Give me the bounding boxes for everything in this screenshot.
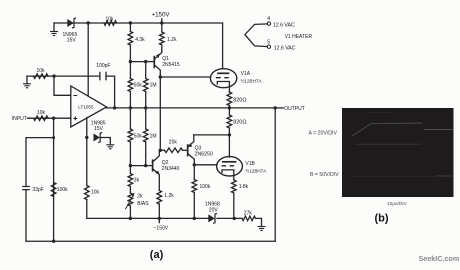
op-amp V+ supply wire bbox=[87, 23, 89, 96]
svg-text:12.6 VAC: 12.6 VAC bbox=[274, 46, 296, 52]
ground (top-left, zener 1N965) bbox=[53, 23, 55, 32]
svg-text:2N6250: 2N6250 bbox=[195, 152, 213, 158]
op-amp U1 LT1055 bbox=[71, 86, 107, 127]
svg-text:15V: 15V bbox=[67, 38, 77, 44]
node bottom rail junction bbox=[52, 240, 55, 243]
resistor 100k (V1B grid bias) bbox=[193, 165, 195, 180]
resistor 820Ω (V1B plate) bbox=[228, 108, 230, 115]
svg-text:+150V: +150V bbox=[152, 12, 171, 19]
svg-text:33pF: 33pF bbox=[32, 187, 43, 193]
wire to V1A grid bbox=[160, 76, 210, 78]
node 20k / Q2 collector bbox=[159, 149, 162, 152]
node Q1 collector / V1A grid bbox=[159, 75, 162, 78]
svg-text:1.2k: 1.2k bbox=[167, 37, 177, 43]
svg-text:15V: 15V bbox=[94, 126, 104, 132]
resistor 1.2k (Q1 emitter) bbox=[161, 23, 163, 32]
wire op-amp output row to OUTPUT node bbox=[107, 107, 276, 109]
resistor 4.3k bbox=[129, 23, 131, 32]
svg-text:100k: 100k bbox=[57, 187, 68, 193]
wire to V1B plate bbox=[228, 135, 230, 157]
svg-text:4: 4 bbox=[267, 16, 270, 22]
svg-text:½12BH7A: ½12BH7A bbox=[245, 168, 267, 174]
wire +150V top rail bbox=[54, 23, 223, 69]
svg-text:B = 50V/DIV: B = 50V/DIV bbox=[310, 172, 339, 178]
wire OUTPUT feedback down bbox=[274, 108, 276, 241]
svg-text:820Ω: 820Ω bbox=[233, 120, 246, 126]
ground (10k inverting input) bbox=[26, 76, 28, 84]
node OUTPUT bbox=[274, 106, 277, 109]
wire -150V rail bbox=[87, 217, 209, 219]
ground bars 27k bbox=[258, 227, 266, 231]
resistor 50k (lower) bbox=[129, 108, 131, 129]
resistor 1M (upper) bbox=[145, 62, 147, 79]
resistor 1.8k (V1B cathode) bbox=[232, 180, 237, 193]
wire collector column down bbox=[159, 77, 161, 150]
wire grid V1B bbox=[194, 164, 217, 166]
node 100pF feedback bbox=[113, 106, 116, 109]
wire zener to 27k bbox=[217, 217, 242, 219]
wire + input node down bbox=[53, 118, 55, 241]
resistor 10k (V- supply from -150V) bbox=[86, 138, 88, 186]
zener diode 1N968 20W bbox=[208, 214, 215, 222]
op-amp V- supply wire bbox=[86, 118, 88, 138]
ground top-left bars bbox=[50, 32, 58, 36]
svg-text:50k: 50k bbox=[134, 133, 143, 139]
svg-text:2N5415: 2N5415 bbox=[162, 62, 180, 68]
node jog to 33pF branch bbox=[52, 136, 55, 139]
svg-text:50k: 50k bbox=[134, 82, 143, 88]
svg-text:100pF: 100pF bbox=[96, 63, 110, 69]
wire Q3 emitter to V1B plate node bbox=[194, 134, 230, 136]
resistor 50k (upper) bbox=[129, 62, 131, 79]
svg-text:(a): (a) bbox=[150, 249, 164, 261]
node output mid bbox=[228, 106, 231, 109]
svg-text:(b): (b) bbox=[375, 212, 389, 224]
+150V label tick bbox=[161, 19, 163, 23]
node -150V bbox=[158, 217, 161, 220]
svg-text:V1 HEATER: V1 HEATER bbox=[285, 34, 313, 40]
resistor 10k (input) bbox=[34, 116, 49, 121]
wire to - input bbox=[54, 76, 71, 95]
svg-text:INPUT: INPUT bbox=[12, 116, 27, 122]
resistor 3k bbox=[129, 166, 131, 174]
svg-text:−150V: −150V bbox=[154, 226, 169, 232]
wire 27k to ground bbox=[256, 218, 262, 226]
node 1M bottom bbox=[144, 164, 147, 167]
svg-text:2N3440: 2N3440 bbox=[162, 166, 180, 172]
scope trace B bbox=[436, 175, 453, 177]
svg-text:5: 5 bbox=[267, 40, 270, 46]
resistor 20k bbox=[160, 149, 164, 151]
svg-text:SeekIC.com: SeekIC.com bbox=[419, 254, 460, 263]
wire zener to ground bbox=[100, 138, 110, 145]
tube V1A 1/2 12BH7A bbox=[210, 69, 236, 88]
svg-text:BIAS: BIAS bbox=[137, 201, 149, 207]
zener diode 1N985 15V bbox=[94, 134, 101, 142]
svg-text:100k: 100k bbox=[200, 184, 211, 190]
resistor 10k (top, +150V to V+ zener node) bbox=[104, 21, 117, 26]
svg-text:10μs/DIV: 10μs/DIV bbox=[387, 201, 408, 207]
svg-text:1.2k: 1.2k bbox=[164, 193, 174, 199]
node V- zener junction bbox=[85, 136, 88, 139]
wire input to + input bbox=[28, 117, 71, 119]
wire Q2 base bbox=[130, 165, 152, 167]
node 100k bottom bbox=[193, 217, 196, 220]
svg-text:10k: 10k bbox=[106, 16, 115, 22]
node inverting input bbox=[52, 74, 55, 77]
node Q1 base / 50k bbox=[129, 60, 132, 63]
transistor Q1 2N5415 bbox=[153, 56, 155, 68]
-150V tick bbox=[158, 218, 160, 222]
svg-text:V1A: V1A bbox=[241, 71, 251, 77]
svg-text:OUTPUT: OUTPUT bbox=[284, 106, 305, 112]
node 50k junction bbox=[129, 106, 132, 109]
svg-text:10k: 10k bbox=[91, 189, 100, 195]
wire OUTPUT stub bbox=[275, 107, 283, 109]
node 1.8k bottom bbox=[233, 217, 236, 220]
resistor 100k (feedback divider) bbox=[51, 183, 56, 197]
ground bars at inverting 10k bbox=[23, 84, 31, 88]
svg-text:3k: 3k bbox=[134, 178, 140, 184]
resistor 1.2k (Q2 emitter) bbox=[157, 191, 162, 205]
resistor 10k (inverting input to ground) bbox=[34, 74, 49, 79]
resistor 27k bbox=[242, 216, 256, 221]
svg-text:V1B: V1B bbox=[245, 161, 255, 167]
node 1M junction bbox=[144, 106, 147, 109]
svg-text:1M: 1M bbox=[150, 133, 157, 139]
svg-text:20k: 20k bbox=[169, 140, 178, 146]
svg-text:Q1: Q1 bbox=[162, 56, 169, 62]
wire 33pF branch bbox=[26, 138, 54, 187]
svg-text:A = 20V/DIV: A = 20V/DIV bbox=[309, 130, 338, 136]
heater terminal 5 bbox=[267, 45, 270, 48]
svg-text:2k: 2k bbox=[137, 194, 143, 200]
bottom feedback rail bbox=[26, 240, 275, 242]
svg-text:½12BH7A: ½12BH7A bbox=[241, 78, 263, 84]
node 1M top bbox=[144, 60, 147, 63]
ground bars 1N985 bbox=[106, 145, 114, 149]
svg-text:20V: 20V bbox=[209, 207, 219, 213]
resistor 1M (lower) bbox=[145, 108, 147, 129]
node Q2 base / 3k bbox=[129, 164, 132, 167]
svg-text:10k: 10k bbox=[37, 68, 46, 74]
svg-text:LT1055: LT1055 bbox=[78, 104, 94, 109]
node V1B plate bbox=[228, 133, 231, 136]
svg-text:27k: 27k bbox=[244, 210, 253, 216]
tube V1B 1/2 12BH7A bbox=[217, 157, 243, 176]
svg-text:10k: 10k bbox=[37, 110, 46, 116]
node + input bbox=[52, 117, 55, 120]
scope photograph (b) bbox=[342, 108, 454, 197]
capacitor 33pF bbox=[22, 187, 30, 190]
svg-text:1M: 1M bbox=[150, 82, 157, 88]
node 4.3k top bbox=[129, 21, 132, 24]
svg-text:12.6 VAC: 12.6 VAC bbox=[273, 23, 295, 29]
svg-text:4.3k: 4.3k bbox=[135, 37, 145, 43]
potentiometer 2k BIAS bbox=[129, 187, 131, 194]
capacitor 100pF bbox=[100, 72, 106, 81]
node +150V bbox=[160, 21, 163, 24]
wire heater V bbox=[245, 24, 267, 47]
svg-text:Q3: Q3 bbox=[195, 145, 202, 151]
node V+ supply junction bbox=[87, 21, 90, 24]
resistor 820Ω (V1A cathode) bbox=[228, 91, 230, 94]
svg-text:820Ω: 820Ω bbox=[233, 97, 246, 103]
transistor Q3 2N6250 bbox=[187, 144, 189, 156]
svg-text:1.8k: 1.8k bbox=[239, 184, 249, 190]
wire Q1 base bbox=[130, 61, 154, 63]
node bias pot bottom bbox=[129, 217, 132, 220]
transistor Q2 2N3440 bbox=[152, 159, 154, 171]
wire inverting input row / feedback row bbox=[27, 75, 100, 77]
heater terminal 4 bbox=[267, 22, 270, 25]
zener diode 1N965 15V bbox=[67, 19, 74, 27]
scope trace A bbox=[352, 123, 422, 136]
node V1B grid bbox=[193, 163, 196, 166]
